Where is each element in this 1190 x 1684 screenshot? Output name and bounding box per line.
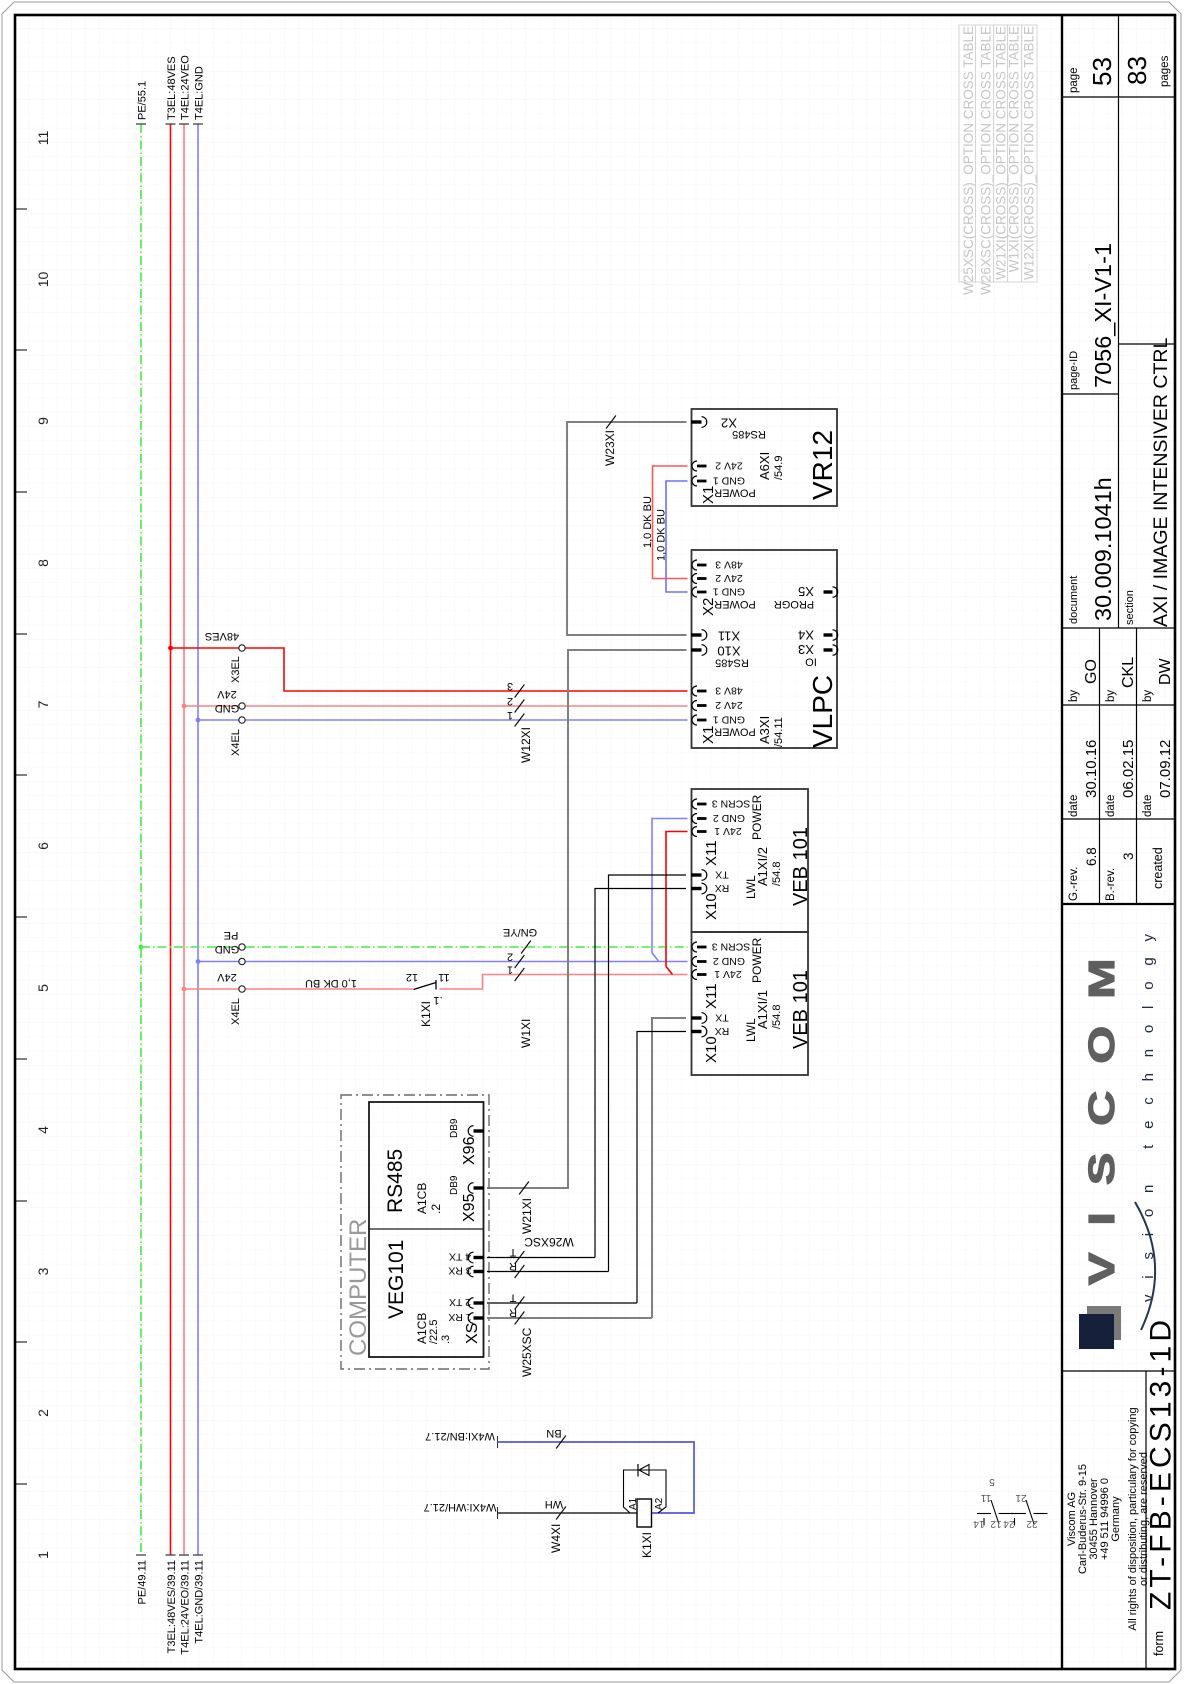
svg-text:GO: GO — [1083, 659, 1100, 684]
connector pin VEB2 X11:1 24V — [692, 827, 697, 837]
connector pin VEB1 X11:2 GND — [692, 957, 697, 967]
svg-text:W12XI(CROSS)_OPTION CROSS TABL: W12XI(CROSS)_OPTION CROSS TABLE — [1022, 26, 1037, 280]
node junction GND tap 2 — [196, 959, 201, 964]
svg-text:24V: 24V — [217, 971, 237, 983]
svg-text:WH: WH — [545, 1498, 563, 1510]
wire VEB2 GND to GND bus — [652, 819, 688, 954]
svg-text:AXI / IMAGE INTENSIVER CTRL: AXI / IMAGE INTENSIVER CTRL — [1150, 338, 1172, 627]
connector pin VLPC RS485 X10 — [702, 645, 707, 656]
svg-text:T4EL:24VEO/39.11: T4EL:24VEO/39.11 — [180, 1560, 192, 1655]
svg-text:X5: X5 — [798, 584, 814, 599]
svg-text:W1XI(CROSS)_OPTION CROSS TABLE: W1XI(CROSS)_OPTION CROSS TABLE — [1007, 26, 1022, 272]
svg-text:GND 2: GND 2 — [713, 812, 745, 824]
svg-text:Germany: Germany — [1110, 1496, 1122, 1542]
wire VEB1 TX to XS 1RX (grey) — [652, 1018, 686, 1318]
terminal X4EL 24V — [239, 703, 245, 709]
svg-text:A6XI: A6XI — [757, 452, 772, 480]
svg-text:83: 83 — [1122, 56, 1152, 85]
wire 48VES rail (red) — [170, 124, 172, 1555]
connector pin VEB2 X11:2 GND — [692, 814, 697, 824]
connector pin VEB1 X11:1 24V — [692, 970, 697, 980]
svg-text:24: 24 — [1003, 1518, 1015, 1529]
svg-text:W4XI:BN/21.7: W4XI:BN/21.7 — [425, 1430, 495, 1442]
svg-text:IO: IO — [805, 656, 817, 668]
svg-text:pages: pages — [1159, 55, 1171, 87]
wire 24VEO rail (salmon) — [183, 124, 185, 1555]
wire PE terminal to VEB101/1 SCRN pin (GN/YE) — [246, 946, 688, 948]
wire 24V contact to VEB101/1 24V pin — [440, 975, 688, 990]
svg-text:POWER: POWER — [714, 726, 756, 738]
svg-text:by: by — [1068, 690, 1080, 702]
node GND top interruption — [193, 123, 203, 125]
wire W21XI VLPC X10 to RS485 X95 (grey) — [487, 650, 687, 1188]
option cross table (grey) — [959, 25, 1037, 282]
svg-text:X3EL: X3EL — [230, 656, 242, 683]
wire VLPC GND1 to VR12 GND (1,0 DK BU) — [666, 481, 688, 592]
svg-text:X10: X10 — [703, 893, 720, 920]
svg-text:.3: .3 — [440, 1335, 452, 1344]
svg-text:2: 2 — [507, 695, 513, 707]
svg-text:POWER: POWER — [714, 487, 756, 499]
svg-text:created: created — [1151, 847, 1165, 889]
svg-text:section: section — [1124, 590, 1136, 625]
wire 48V tap to terminal — [171, 647, 239, 649]
svg-text:A1XI/1: A1XI/1 — [755, 990, 770, 1029]
connector pin VR12 RS485 X2 — [702, 417, 707, 428]
node junction 48VES tap — [168, 646, 173, 651]
svg-text:XS: XS — [464, 1323, 481, 1344]
svg-text:11: 11 — [980, 1492, 991, 1503]
wire GND terminal to VLPC GND pin — [246, 719, 688, 721]
svg-text:48VES: 48VES — [205, 630, 239, 642]
svg-text:by: by — [1142, 690, 1154, 702]
wire VEB2 RX to XS 4TX — [595, 889, 686, 1258]
relay coil K1XI — [637, 1499, 652, 1527]
svg-text:TX: TX — [715, 1012, 728, 1024]
svg-text:2 TX: 2 TX — [449, 1296, 471, 1308]
device VLPC A3XI box — [692, 550, 838, 748]
svg-text:W21XI: W21XI — [520, 1198, 534, 1234]
svg-text:VLPC: VLPC — [807, 675, 838, 748]
wire W23XI VR12 X2 to VLPC X11 — [567, 422, 687, 635]
svg-text:3: 3 — [1121, 852, 1136, 860]
wire label GN/YE — [521, 941, 531, 954]
svg-text:12: 12 — [990, 1518, 1002, 1529]
suppression diode across K1XI coil — [624, 1470, 667, 1513]
svg-text:A3XI: A3XI — [757, 716, 772, 744]
svg-text:T3EL:48VES/39.11: T3EL:48VES/39.11 — [166, 1560, 178, 1653]
svg-text:document: document — [1068, 576, 1080, 624]
node 48VES bottom interruption — [166, 1554, 176, 1556]
svg-text:VEB 101: VEB 101 — [790, 970, 812, 1049]
connector pin VLPC IO X4 — [824, 633, 833, 636]
svg-text:X95: X95 — [461, 1193, 478, 1222]
wire label W1XI conductor 2 — [515, 955, 525, 968]
svg-text:page-ID: page-ID — [1068, 351, 1080, 390]
connector pin VEB2 X10 TX — [702, 870, 707, 881]
svg-text:1: 1 — [35, 1551, 51, 1559]
connector pin X95 (DB9) — [468, 1183, 473, 1194]
svg-text:X11: X11 — [703, 840, 720, 866]
svg-text:07.09.12: 07.09.12 — [1157, 740, 1174, 798]
wire VLPC 24V2 to VR12 24V (1,0 DK BU) — [653, 466, 688, 579]
svg-text:W26XSC: W26XSC — [524, 1235, 574, 1249]
svg-text:/54.8: /54.8 — [771, 1005, 783, 1029]
node PE top interruption — [136, 123, 146, 125]
svg-text:1: 1 — [507, 709, 513, 721]
svg-text:CKL: CKL — [1120, 657, 1137, 688]
svg-text:W4XI: W4XI — [549, 1524, 563, 1553]
svg-text:24V 2: 24V 2 — [715, 460, 743, 472]
node 24VEO bottom interruption — [179, 1554, 189, 1556]
connector pin VLPC POWER1X:3 48V — [692, 686, 697, 696]
svg-text:X11: X11 — [703, 983, 720, 1009]
svg-text:DB9: DB9 — [449, 1118, 460, 1138]
svg-text:/22.5: /22.5 — [428, 1320, 440, 1344]
wire 24V tap to terminal — [184, 705, 238, 707]
svg-text:/54.9: /54.9 — [773, 456, 785, 480]
wire label W12XI conductor 3 — [515, 685, 525, 698]
device VR12 A6XI box — [692, 409, 838, 506]
svg-text:06.02.15: 06.02.15 — [1120, 740, 1137, 798]
wire W4XI BN to coil A2 — [497, 1436, 499, 1448]
svg-text:GND: GND — [215, 943, 240, 955]
svg-text:X10: X10 — [703, 1036, 720, 1063]
svg-text:5: 5 — [989, 1476, 995, 1487]
connector pin VLPC IO X3 — [824, 648, 833, 651]
device VEB 101 A1XI/1 box — [692, 932, 809, 1075]
node junction PE tap — [139, 945, 144, 950]
svg-text:A1CB: A1CB — [415, 1313, 429, 1344]
svg-text:14: 14 — [973, 1518, 985, 1529]
svg-text:PE: PE — [224, 929, 239, 941]
svg-text:form: form — [1152, 1631, 1166, 1656]
svg-text:1 RX: 1 RX — [448, 1311, 471, 1323]
svg-text:6.8: 6.8 — [1084, 847, 1099, 866]
svg-text:24V 2: 24V 2 — [715, 699, 743, 711]
connector pin XS:2 TX — [468, 1298, 473, 1309]
svg-text:DW: DW — [1157, 657, 1174, 685]
svg-text:9: 9 — [35, 417, 51, 425]
svg-text:G.-rev.: G.-rev. — [1068, 867, 1080, 901]
connector pin VLPC POWER2X:1 GND — [692, 587, 697, 597]
svg-text:COMPUTER: COMPUTER — [345, 1219, 372, 1356]
svg-text:POWER: POWER — [714, 598, 756, 610]
svg-text:RX: RX — [715, 882, 730, 894]
svg-text:22: 22 — [1026, 1518, 1038, 1529]
svg-text:A1: A1 — [628, 1497, 639, 1510]
svg-text:DB9: DB9 — [449, 1175, 460, 1195]
VISCOM logo swoosh — [1135, 1202, 1155, 1330]
svg-text:T3EL:48VES: T3EL:48VES — [166, 56, 178, 120]
svg-text:W1XI: W1XI — [519, 1019, 533, 1048]
svg-text:POWER: POWER — [750, 937, 764, 983]
svg-text:48V 3: 48V 3 — [715, 685, 743, 697]
wire label W21XI — [519, 1182, 529, 1195]
svg-text:T4EL:24VEO: T4EL:24VEO — [180, 55, 192, 120]
svg-text:VEG101: VEG101 — [385, 1240, 408, 1319]
connector pin XS:4 TX — [468, 1252, 473, 1263]
node junction 24V tap 2 — [182, 987, 187, 992]
svg-text:X4EL: X4EL — [230, 729, 242, 756]
terminal X4EL 24V 2 — [239, 986, 245, 992]
svg-text:.2: .2 — [429, 1204, 443, 1214]
svg-text:T: T — [509, 1292, 516, 1304]
svg-text:24V 1: 24V 1 — [714, 968, 742, 980]
wire 24V terminal to contact K1XI — [246, 988, 413, 990]
wire PE tap to terminal — [141, 946, 238, 948]
frame column ticks — [15, 209, 27, 1484]
connector pin VEB1 X11:3 SCRN — [692, 942, 697, 952]
wire PE rail (green dash-dot) — [140, 124, 142, 1555]
contact K1XI .1 (NO, pins 12-11) — [414, 983, 437, 990]
svg-text:30.009.1041h: 30.009.1041h — [1090, 477, 1116, 621]
wire VEB2 24V to 24V bus — [666, 832, 688, 967]
svg-text:48V 3: 48V 3 — [715, 559, 743, 571]
device VEB 101 A1XI/2 box — [692, 789, 809, 932]
svg-text:T: T — [509, 1246, 516, 1258]
svg-text:3: 3 — [35, 1267, 51, 1275]
svg-text:24V: 24V — [217, 688, 237, 700]
connector pin VLPC PROGR X5 — [824, 590, 833, 593]
svg-text:PROGR: PROGR — [774, 598, 814, 610]
svg-text:/54.8: /54.8 — [771, 862, 783, 886]
node 24VEO top interruption — [179, 123, 189, 125]
svg-text:GND 1: GND 1 — [713, 714, 745, 726]
svg-text:10: 10 — [35, 272, 51, 288]
svg-text:W25XSC(CROSS)_OPTION CROSS TAB: W25XSC(CROSS)_OPTION CROSS TABLE — [961, 26, 976, 295]
svg-text:X11: X11 — [718, 629, 740, 644]
node GND bottom interruption — [193, 1554, 203, 1556]
wire GND tap to terminal 2 — [198, 961, 238, 963]
svg-text:POWER: POWER — [750, 794, 764, 840]
svg-text:R: R — [509, 1260, 517, 1272]
svg-text:4: 4 — [35, 1126, 51, 1134]
svg-text:1,0 DK BU: 1,0 DK BU — [305, 977, 357, 989]
svg-text:date: date — [1105, 795, 1117, 817]
wire 24V tap to terminal 2 — [184, 988, 238, 990]
svg-text:T4EL:GND: T4EL:GND — [194, 66, 206, 120]
wire label W1XI conductor 1 — [515, 968, 525, 981]
connector pin VR12 POWER1X:2 24V — [692, 461, 697, 471]
svg-text:GND 1: GND 1 — [713, 586, 745, 598]
wire XS 2TX to VEB1 RX — [487, 1302, 637, 1304]
svg-text:X4EL: X4EL — [230, 998, 242, 1025]
svg-text:W4XI:WH/21.7: W4XI:WH/21.7 — [424, 1501, 497, 1513]
wire VEB1 RX to XS 2TX — [637, 1032, 686, 1304]
svg-text:W12XI: W12XI — [519, 727, 533, 763]
svg-text:21: 21 — [1015, 1492, 1027, 1503]
wire label W23XI — [606, 416, 616, 429]
svg-text:7: 7 — [35, 700, 51, 708]
node 48VES top interruption — [166, 123, 176, 125]
title block borders — [1062, 15, 1175, 1669]
svg-text:A1CB: A1CB — [415, 1183, 429, 1214]
svg-text:or distributing, are reserved: or distributing, are reserved — [1138, 1452, 1150, 1586]
node junction 24V tap — [182, 704, 187, 709]
svg-text:VR12: VR12 — [807, 430, 838, 500]
svg-text:1: 1 — [507, 964, 513, 976]
VISCOM logo squares — [1087, 1306, 1121, 1340]
wire W4XI WH to coil A1 — [497, 1507, 499, 1519]
node junction GND tap — [196, 718, 201, 723]
connector pin XS:3 RX — [468, 1266, 473, 1277]
svg-text:24V 1: 24V 1 — [714, 825, 742, 837]
svg-text:VEB 101: VEB 101 — [790, 827, 812, 906]
svg-text:GND 2: GND 2 — [713, 955, 745, 967]
connector pin VLPC POWER1X:2 24V — [692, 701, 697, 711]
device VEG101 / RS485 box — [369, 1102, 484, 1357]
svg-text:BN: BN — [546, 1427, 561, 1439]
wire 24V terminal to VLPC 24V pin — [246, 705, 688, 707]
connector pin VEB1 X10 TX — [702, 1013, 707, 1024]
connector pin VEB2 X10 RX — [702, 883, 707, 894]
svg-text:1,0 DK BU: 1,0 DK BU — [656, 509, 668, 561]
wire GND tap to terminal — [198, 719, 238, 721]
terminal X4EL GND — [239, 717, 245, 723]
svg-text:X96: X96 — [461, 1136, 478, 1165]
terminal X3EL 48VES — [239, 645, 245, 651]
frame column numbers 11..1 — [35, 131, 51, 1559]
svg-text:page: page — [1068, 67, 1080, 93]
svg-text:date: date — [1068, 795, 1080, 817]
svg-text:SCRN 3: SCRN 3 — [712, 798, 751, 810]
connector pin VLPC POWER2X:3 48V — [692, 560, 697, 570]
svg-text:TX: TX — [715, 869, 728, 881]
svg-text:.1: .1 — [433, 994, 442, 1006]
svg-text:11: 11 — [35, 131, 51, 146]
wire XS 3RX to VEB2 TX — [487, 1271, 609, 1273]
connector pin VLPC POWER2X:2 24V — [692, 574, 697, 584]
svg-text:7056_XI-V1-1: 7056_XI-V1-1 — [1090, 243, 1116, 388]
svg-text:RS485: RS485 — [732, 428, 766, 440]
svg-text:6: 6 — [35, 842, 51, 850]
svg-text:X4: X4 — [798, 628, 814, 643]
connector pin VR12 POWER1X:1 GND — [692, 476, 697, 486]
svg-text:24V 2: 24V 2 — [715, 572, 743, 584]
svg-text:GND 1: GND 1 — [713, 475, 745, 487]
svg-text:T4EL:GND/39.11: T4EL:GND/39.11 — [194, 1560, 206, 1644]
svg-text:2: 2 — [507, 951, 513, 963]
connector pin VLPC POWER1X:1 GND — [692, 715, 697, 725]
terminal GND 2 — [239, 958, 245, 964]
wire XS 1RX to VEB1 TX (grey) — [487, 1317, 652, 1319]
svg-text:RS485: RS485 — [384, 1149, 407, 1213]
svg-text:11: 11 — [438, 971, 449, 983]
svg-text:/54.11: /54.11 — [773, 717, 785, 747]
svg-text:53: 53 — [1087, 57, 1117, 86]
svg-text:PE/55.1: PE/55.1 — [137, 81, 149, 120]
wire label W1XI... W12XI conductor 1 — [515, 714, 525, 727]
svg-text:GN/YE: GN/YE — [503, 926, 537, 938]
svg-text:1,0 DK BU: 1,0 DK BU — [642, 496, 654, 548]
svg-text:K1XI: K1XI — [640, 1532, 654, 1558]
svg-text:W23XI: W23XI — [603, 430, 617, 466]
terminal PE — [239, 944, 245, 950]
svg-text:12: 12 — [406, 971, 418, 983]
wire XS 4TX to VEB2 RX — [487, 1257, 595, 1259]
svg-text:PE/49.11: PE/49.11 — [137, 1560, 149, 1604]
svg-text:A1XI/2: A1XI/2 — [755, 847, 770, 886]
connector pin VEB2 X11:3 SCRN — [692, 799, 697, 809]
wire GND terminal to VEB101/1 GND pin — [246, 961, 688, 963]
connector pin VLPC RS485 X11 — [702, 630, 707, 641]
svg-text:SCRN 3: SCRN 3 — [712, 941, 751, 953]
connector pin X96 (DB9) — [468, 1126, 473, 1137]
svg-text:RS485: RS485 — [715, 657, 749, 669]
svg-text:VISCOM: VISCOM — [1082, 931, 1122, 1285]
structure box COMPUTER (dashed) — [341, 1095, 489, 1369]
svg-text:X10: X10 — [717, 644, 740, 659]
connector pin VEB1 X10 RX — [702, 1026, 707, 1037]
svg-text:5: 5 — [35, 984, 51, 992]
connector pin XS:1 RX — [468, 1313, 473, 1324]
svg-text:R: R — [509, 1307, 517, 1319]
svg-text:B.-rev.: B.-rev. — [1105, 868, 1117, 901]
svg-text:30.10.16: 30.10.16 — [1083, 740, 1100, 798]
svg-text:W26XSC(CROSS)_OPTION CROSS TAB: W26XSC(CROSS)_OPTION CROSS TABLE — [979, 26, 994, 295]
wire GND rail (blue) — [197, 124, 199, 1555]
wire VEB2 TX to XS 3RX — [609, 875, 687, 1272]
contact cross-reference K1XI contacts — [977, 1500, 1048, 1526]
svg-text:K1XI: K1XI — [419, 1001, 433, 1027]
svg-text:A2: A2 — [654, 1497, 665, 1510]
svg-text:2: 2 — [35, 1409, 51, 1417]
svg-text:8: 8 — [35, 559, 51, 567]
svg-text:3: 3 — [507, 680, 513, 692]
wire label W12XI conductor 2 — [515, 700, 525, 713]
svg-text:by: by — [1105, 690, 1117, 702]
svg-text:RX: RX — [715, 1025, 730, 1037]
svg-text:date: date — [1142, 795, 1154, 817]
wire 48V terminal to VLPC 48V pin — [246, 648, 688, 691]
svg-text:X3: X3 — [798, 642, 814, 657]
svg-text:GND: GND — [215, 702, 240, 714]
svg-text:4 TX: 4 TX — [449, 1251, 471, 1263]
node PE bottom interruption — [136, 1554, 146, 1556]
svg-text:3 RX: 3 RX — [448, 1265, 471, 1277]
svg-text:W25XSC: W25XSC — [520, 1327, 534, 1377]
